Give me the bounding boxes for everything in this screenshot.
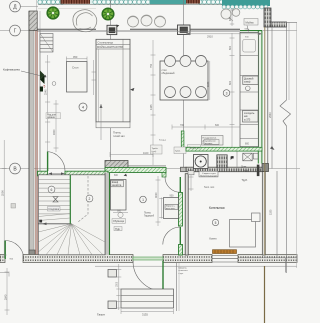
porch dim horizontal	[121, 309, 174, 314]
entry door leaf	[162, 261, 164, 292]
oven label box	[243, 76, 258, 85]
niche dim line	[159, 198, 163, 219]
grid bubble В	[10, 163, 21, 174]
left wall top pier	[29, 11, 37, 31]
fridge label box	[243, 111, 259, 123]
grid bubble Д	[10, 1, 21, 12]
hall top dim 1100	[110, 152, 153, 157]
old wall olive line right	[264, 27, 266, 255]
dark mark under symbol	[40, 87, 43, 92]
svg-text:Полка.: Полка.	[144, 212, 152, 214]
kitchen dim line y127	[172, 125, 240, 130]
mirror niche label box	[165, 204, 178, 209]
stair treads straight flight	[38, 180, 70, 214]
svg-text:2: 2	[89, 197, 91, 201]
dishwasher label box	[202, 136, 224, 146]
niche cabinet	[164, 198, 179, 219]
dining chairs top	[165, 56, 207, 67]
washing machine	[194, 155, 209, 169]
small label box	[187, 145, 200, 150]
svg-text:хозяйств.: хозяйств.	[112, 184, 122, 187]
dark mark right of dryer	[231, 156, 234, 160]
hall zone circle 1	[140, 196, 147, 203]
left exterior wall	[29, 11, 40, 257]
kitchen green wall top	[240, 30, 262, 32]
band base line	[38, 4, 222, 6]
column B2 dining	[178, 25, 191, 35]
kitchen green wall right	[258, 31, 262, 164]
wall dim line vertical x47	[45, 55, 50, 166]
dryer hatched	[217, 155, 227, 168]
svg-text:(тех): (тех)	[152, 151, 157, 153]
grid axis vertical x37	[36, 0, 38, 260]
svg-text:1185: 1185	[270, 209, 273, 215]
stair landing edge	[38, 223, 71, 225]
svg-text:Конд-р: Конд-р	[159, 140, 167, 142]
stairs block	[38, 175, 105, 255]
svg-text:ш.575: ш.575	[244, 119, 251, 121]
small tech box at boiler wall	[188, 171, 194, 175]
kitchen hall door arc	[165, 177, 180, 192]
kitchen counter column right	[240, 32, 258, 146]
right boundary line stub	[271, 21, 297, 23]
outer face line below south wall	[95, 265, 297, 267]
radiator	[213, 250, 237, 254]
green wall jog at door	[162, 173, 166, 178]
break zigzag	[280, 100, 291, 126]
svg-text:зона хран.: зона хран.	[166, 208, 176, 210]
small box left of washer	[174, 147, 186, 154]
WC green wall lower	[179, 245, 183, 256]
laundry left green wall	[181, 131, 184, 151]
svg-text:Труб.: Труб.	[242, 179, 248, 182]
svg-text:машина: машина	[205, 143, 213, 145]
teal paving block 2	[222, 0, 270, 6]
svg-text:600: 600	[117, 210, 122, 213]
window in south wall boiler room	[212, 256, 238, 263]
svg-text:3: 3	[226, 91, 228, 95]
wall pier left of boiler wall	[181, 167, 187, 172]
terrace curved sofa	[73, 10, 97, 32]
hall small circle marker	[118, 212, 123, 217]
bottom left dim line	[5, 268, 10, 315]
right stub vertical below wall	[285, 258, 287, 273]
entry threshold green	[133, 257, 163, 260]
kitchen dim line x232	[230, 33, 235, 150]
shelf unit	[40, 34, 53, 53]
edging scallop row	[38, 0, 222, 5]
laundry green wall	[186, 147, 262, 151]
svg-text:Котельная: Котельная	[209, 206, 225, 210]
kitchen island	[92, 39, 135, 128]
svg-text:Тепл. пол: Тепл. пол	[204, 187, 215, 189]
svg-text:900: 900	[170, 194, 175, 197]
svg-text:2840: 2840	[4, 294, 7, 300]
hall dim 600	[113, 212, 128, 214]
center dim line vertical x151	[151, 40, 156, 165]
svg-text:700: 700	[180, 124, 185, 127]
svg-text:2640: 2640	[268, 112, 272, 118]
sink label box	[244, 19, 258, 26]
svg-text:2500: 2500	[0, 190, 4, 196]
terrace chair circles	[128, 15, 166, 27]
svg-text:Плита,: Плита,	[113, 131, 121, 135]
svg-text:1445: 1445	[150, 104, 153, 110]
wc door leaf	[179, 227, 181, 245]
boiler small box	[252, 213, 261, 222]
svg-text:Ширина: Ширина	[179, 267, 188, 269]
dim line left of sink box	[230, 8, 234, 26]
grid axis vertical x110	[110, 0, 112, 165]
porch steps	[121, 289, 174, 308]
WC green wall upper	[179, 193, 183, 227]
fence brown line bottom right	[264, 266, 266, 323]
svg-text:Дым.: Дым.	[241, 165, 247, 168]
left small box	[11, 204, 16, 209]
stair number circle 2	[86, 195, 93, 202]
svg-text:и высота: и высота	[179, 270, 189, 272]
boiler zone circle	[212, 219, 218, 225]
grid axis line Г horizontal	[0, 30, 297, 32]
kitchen zone circle 3	[223, 90, 230, 97]
svg-text:950: 950	[73, 55, 78, 59]
svg-text:600: 600	[229, 45, 232, 50]
plant 1	[47, 7, 59, 19]
svg-text:Г: Г	[14, 28, 17, 34]
porch dim vertical	[116, 264, 121, 310]
laundry label box	[204, 140, 219, 145]
hall cabinet label box	[111, 180, 124, 187]
column B1 top of island	[107, 25, 119, 35]
svg-text:750: 750	[150, 63, 153, 68]
left wall bottom pier	[29, 250, 35, 260]
south exterior wall segments	[0, 255, 297, 263]
svg-text:Пуф: Пуф	[115, 228, 120, 231]
top right hatched wall horizontal	[271, 22, 287, 27]
svg-text:тихий зал: тихий зал	[113, 134, 125, 138]
top wall line over living room	[37, 28, 96, 30]
small circle marker	[52, 82, 56, 86]
hall top green wall	[105, 168, 166, 173]
terrace pots right	[221, 9, 240, 21]
svg-text:6: 6	[51, 188, 53, 192]
dining table	[160, 61, 208, 100]
stair closet label	[48, 207, 61, 212]
pouf label	[114, 227, 122, 231]
west door arc	[5, 241, 24, 260]
svg-text:1: 1	[142, 198, 144, 202]
svg-text:Столешница: Столешница	[98, 40, 114, 44]
svg-text:300: 300	[244, 170, 249, 173]
winder fan treads	[38, 224, 105, 255]
stairs top green wall right segment	[65, 171, 108, 176]
stairs outer box	[38, 175, 105, 255]
svg-text:Газон: Газон	[97, 313, 105, 317]
svg-text:4020: 4020	[155, 192, 158, 198]
left bottom L mark	[0, 273, 9, 277]
zone circle 4	[79, 103, 87, 111]
red dash block	[186, 0, 200, 4]
svg-text:Обувница: Обувница	[113, 220, 125, 223]
island leader line	[100, 104, 102, 140]
svg-text:Котел: Котел	[210, 237, 217, 241]
dim line vertical x56	[54, 100, 59, 152]
coffee machine symbol	[40, 71, 45, 80]
svg-text:Мойка: Мойка	[246, 20, 255, 24]
chimney bar	[257, 165, 260, 177]
boiler unit rect	[230, 220, 256, 248]
boiler room left wall	[185, 174, 188, 255]
dining chairs bottom	[165, 87, 207, 98]
stair walk dashed line	[78, 176, 88, 222]
grid axis line Д horizontal	[20, 6, 38, 8]
svg-text:Полотенцесушит.: Полотенцесушит.	[200, 175, 218, 177]
top dim 2910	[186, 33, 262, 35]
right line x277 lower	[276, 171, 278, 256]
svg-text:Тумб.: Тумб.	[175, 151, 181, 153]
svg-text:5: 5	[215, 221, 217, 225]
stair green stringer	[69, 175, 71, 224]
svg-text:1600: 1600	[53, 129, 56, 135]
svg-text:ступ.: ступ.	[179, 273, 184, 275]
grid axis line В horizontal	[0, 168, 300, 170]
grid bubble Г	[10, 25, 21, 36]
svg-text:Тумба: Тумба	[152, 148, 159, 150]
teal paving block 1	[150, 0, 186, 4]
svg-text:МОЙКА+БАРНАЯ ПВХ: МОЙКА+БАРНАЯ ПВХ	[97, 46, 124, 49]
entry door arc	[133, 261, 163, 291]
wc door arc	[163, 227, 181, 245]
svg-text:800: 800	[245, 143, 250, 146]
svg-text:Шкаф: Шкаф	[112, 181, 118, 184]
stairs door arc	[48, 152, 65, 172]
svg-text:обеденный: обеденный	[162, 72, 176, 75]
svg-text:600: 600	[215, 124, 220, 127]
plant 2	[102, 8, 114, 20]
svg-text:холодиль-: холодиль-	[244, 113, 255, 115]
boiler room right wall	[262, 164, 269, 256]
laundry label box on wall	[199, 171, 218, 177]
desk table	[67, 62, 88, 93]
hall tall cabinet	[111, 180, 127, 211]
svg-text:600: 600	[229, 16, 232, 21]
svg-text:Шкаф хоз.: Шкаф хоз.	[190, 146, 201, 149]
stair symbol hourglass	[53, 197, 58, 203]
stair number circle 6	[48, 186, 55, 193]
dining table dim right	[209, 61, 211, 100]
right boundary line x287	[286, 22, 288, 100]
shoe cabinet label	[112, 219, 126, 224]
svg-text:дивана: дивана	[47, 117, 55, 119]
grid axis vertical x183	[183, 0, 185, 170]
svg-text:600: 600	[229, 80, 232, 85]
terrace landscaping band top	[38, 0, 270, 9]
boiler door dim	[189, 175, 194, 191]
mulch red block	[61, 0, 91, 4]
west door leaf	[4, 241, 6, 260]
svg-text:шкаф: шкаф	[244, 81, 250, 84]
right dim arrow	[270, 146, 275, 150]
porch column upper	[108, 270, 117, 278]
faint lower line	[38, 8, 96, 10]
svg-text:Кофемашина: Кофемашина	[3, 67, 20, 71]
sofa row label	[46, 113, 61, 119]
top right hatched wall column	[264, 8, 271, 27]
svg-text:Посудомоечн.: Посудомоечн.	[203, 138, 218, 140]
svg-text:Кладовка: Кладовка	[49, 208, 60, 211]
small tech boxes below counter	[243, 153, 252, 161]
porch column lower	[108, 301, 117, 309]
hall top wall pier	[105, 161, 128, 168]
svg-text:2540: 2540	[45, 89, 48, 95]
stairs top green wall left segment	[38, 171, 48, 176]
svg-text:Стол: Стол	[72, 65, 79, 69]
hall top thin wall lines	[128, 165, 166, 167]
tumba label box	[151, 145, 163, 154]
porch right edge lines	[176, 263, 178, 311]
svg-text:2910: 2910	[207, 34, 213, 38]
sink mark	[243, 40, 256, 53]
svg-text:5: 5	[44, 85, 46, 89]
right wall line x267	[267, 27, 269, 164]
kitchen hall door leaf	[179, 177, 181, 192]
stairs door leaf	[47, 152, 49, 172]
left dim line	[2, 140, 7, 258]
boiler room top wall	[186, 167, 263, 172]
svg-text:1500: 1500	[116, 281, 118, 287]
stair hall partition wall	[105, 173, 110, 256]
svg-text:Гардероб: Гардероб	[144, 215, 155, 217]
right line x272	[271, 27, 273, 169]
svg-text:3135: 3135	[142, 312, 148, 316]
desk dim 950	[67, 57, 88, 62]
svg-text:1165: 1165	[207, 81, 210, 87]
svg-text:1100: 1100	[143, 152, 149, 155]
